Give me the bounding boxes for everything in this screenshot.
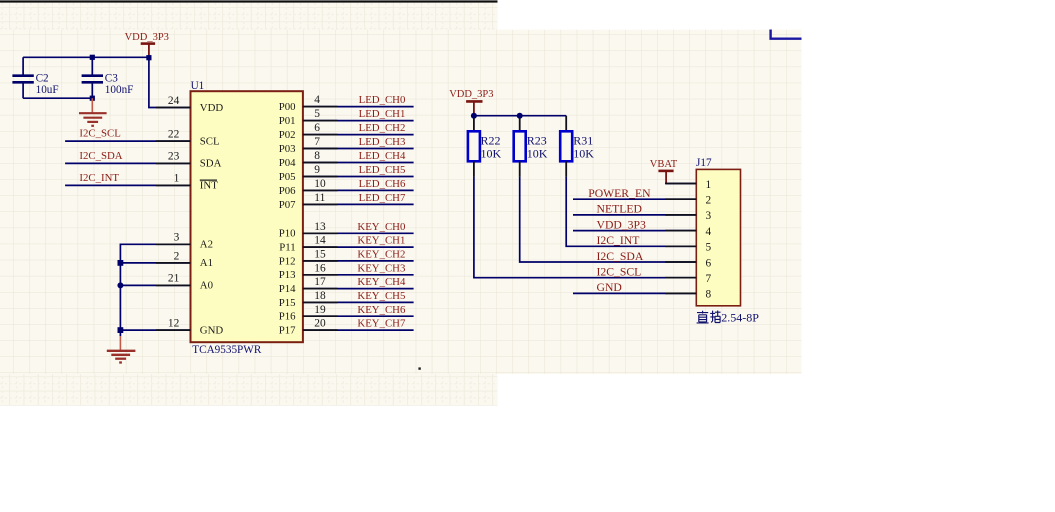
svg-text:10K: 10K: [573, 147, 594, 161]
svg-text:SCL: SCL: [200, 135, 220, 147]
wire top bus C2-C3-VDD: [23, 56, 149, 58]
svg-text:10: 10: [314, 178, 326, 190]
svg-text:P04: P04: [279, 157, 296, 169]
ground (below U1 GND net): [107, 330, 136, 362]
connector J17 body: [696, 169, 740, 305]
svg-text:U1: U1: [191, 80, 205, 92]
svg-text:22: 22: [168, 128, 180, 140]
svg-text:P03: P03: [279, 143, 296, 155]
svg-text:I2C_SDA: I2C_SDA: [597, 250, 644, 263]
svg-text:GND: GND: [200, 325, 224, 337]
svg-text:I2C_SCL: I2C_SCL: [79, 128, 120, 140]
svg-text:LED_CH7: LED_CH7: [359, 192, 406, 204]
svg-text:14: 14: [314, 235, 326, 247]
wire I2C_INT: [65, 184, 190, 186]
wire A2 row with vertical drop: [120, 244, 190, 330]
stray dot: [418, 367, 420, 369]
svg-text:P12: P12: [279, 255, 296, 267]
svg-text:2.54-8P: 2.54-8P: [721, 311, 759, 325]
svg-text:VDD: VDD: [200, 102, 224, 114]
J17 pin stubs (black pin segments): [665, 184, 696, 294]
wire A1 row: [120, 262, 190, 264]
capacitor C3: [82, 57, 134, 98]
U1 left pin stubs (black pin segments): [156, 108, 191, 331]
power VBAT: [650, 159, 678, 184]
svg-text:LED_CH6: LED_CH6: [359, 178, 406, 190]
ground (below C3): [79, 98, 107, 126]
svg-text:I2C_SDA: I2C_SDA: [79, 150, 122, 162]
pin numbers 4-11: [314, 94, 326, 204]
wire GND row: [120, 329, 190, 331]
schematic sheet B (main, coarse grid): [0, 30, 801, 374]
svg-text:10K: 10K: [481, 147, 502, 161]
svg-text:P15: P15: [279, 297, 296, 309]
svg-text:1: 1: [706, 179, 712, 191]
node junction GND: [118, 327, 124, 333]
svg-text:R22: R22: [481, 133, 501, 147]
value label 直插2.54-8P: [697, 311, 760, 325]
svg-text:16: 16: [314, 262, 326, 274]
capacitor C2: [12, 57, 58, 98]
wire NETLED to pin 3: [573, 214, 696, 216]
svg-text:LED_CH4: LED_CH4: [359, 150, 406, 162]
svg-text:C2: C2: [36, 72, 49, 84]
svg-text:19: 19: [314, 304, 326, 316]
wire R31 bottom to I2C_INT (pin 5): [565, 161, 567, 177]
svg-text:23: 23: [168, 151, 180, 163]
svg-text:11: 11: [314, 192, 325, 204]
svg-text:18: 18: [314, 290, 326, 302]
svg-text:100nF: 100nF: [105, 84, 134, 96]
svg-text:24: 24: [168, 95, 180, 107]
node junction C3 bottom: [90, 96, 95, 101]
svg-text:4: 4: [314, 94, 320, 106]
svg-text:KEY_CH0: KEY_CH0: [357, 221, 405, 233]
svg-text:12: 12: [168, 317, 180, 329]
resistor R22: [468, 118, 502, 161]
svg-text:VDD_3P3: VDD_3P3: [449, 89, 493, 100]
wire VBAT to pin 1: [666, 183, 696, 185]
LED channel wires P00-P07: [303, 107, 414, 205]
svg-text:6: 6: [314, 122, 320, 134]
KEY channel wires P10-P17: [303, 233, 414, 330]
svg-text:9: 9: [314, 164, 320, 176]
IC U1 body: [191, 91, 303, 342]
svg-text:17: 17: [314, 276, 326, 288]
svg-text:VDD_3P3: VDD_3P3: [597, 218, 647, 231]
svg-text:KEY_CH5: KEY_CH5: [357, 290, 405, 302]
svg-text:7: 7: [314, 136, 320, 148]
svg-text:P00: P00: [279, 101, 296, 113]
resistor R31: [560, 116, 594, 162]
svg-text:P14: P14: [279, 283, 296, 295]
wire POWER_EN to pin 2: [573, 198, 696, 200]
right side P00-P07 pin names: [279, 101, 296, 211]
wire VDD_3P3 to pin 4: [573, 230, 696, 232]
svg-text:P16: P16: [279, 311, 296, 323]
svg-text:KEY_CH6: KEY_CH6: [357, 304, 406, 316]
wire VDD down to pin 24: [149, 55, 191, 108]
svg-text:20: 20: [314, 318, 326, 330]
wire I2C_SDA: [65, 162, 190, 164]
svg-text:INT: INT: [200, 180, 218, 192]
net labels KEY_CH0-KEY_CH7: [357, 221, 406, 330]
resistor R23: [514, 118, 548, 161]
svg-text:2: 2: [706, 195, 712, 207]
svg-text:3: 3: [706, 210, 712, 222]
wire pullup bus: [474, 115, 566, 117]
svg-text:LED_CH0: LED_CH0: [359, 94, 406, 106]
net labels LED_CH0-LED_CH7: [359, 94, 406, 204]
svg-text:A1: A1: [200, 257, 213, 269]
right side P10-P17 pin names: [279, 228, 296, 337]
svg-text:VBAT: VBAT: [650, 159, 678, 170]
wire GND to pin 8: [573, 292, 696, 294]
svg-text:A2: A2: [200, 239, 213, 251]
node junction A1: [118, 260, 124, 266]
wire R22 bottom to I2C_SCL (pin 7): [473, 161, 475, 177]
node junction A0: [117, 282, 123, 288]
svg-text:SDA: SDA: [200, 158, 222, 170]
node junction C3 top: [90, 55, 95, 60]
wire I2C_SCL: [65, 140, 190, 142]
svg-text:P07: P07: [279, 199, 296, 211]
svg-text:1: 1: [174, 173, 180, 185]
svg-text:13: 13: [314, 221, 326, 233]
wire bottom C2-C3: [23, 97, 92, 99]
svg-text:A0: A0: [200, 280, 213, 292]
svg-text:R31: R31: [573, 133, 593, 147]
svg-text:15: 15: [314, 249, 326, 261]
svg-text:LED_CH5: LED_CH5: [359, 164, 406, 176]
svg-text:10uF: 10uF: [36, 84, 59, 96]
wire A0 row: [120, 284, 190, 286]
sheet A top border line: [0, 0, 498, 2]
svg-text:P01: P01: [279, 115, 296, 127]
svg-text:LED_CH2: LED_CH2: [359, 122, 406, 134]
svg-text:I2C_INT: I2C_INT: [79, 172, 119, 184]
wire R23 bottom to I2C_SDA (pin 6): [519, 161, 521, 177]
svg-text:P06: P06: [279, 185, 296, 197]
svg-text:2: 2: [174, 250, 180, 262]
pin numbers 1-8 of J17: [706, 179, 712, 301]
svg-text:P17: P17: [279, 325, 296, 337]
svg-text:8: 8: [314, 150, 320, 162]
svg-text:P05: P05: [279, 171, 296, 183]
pin numbers 13-20: [314, 221, 326, 330]
schematic sheet A (top-left, fine grid): [0, 3, 498, 406]
svg-text:LED_CH3: LED_CH3: [359, 136, 406, 148]
svg-text:3: 3: [174, 232, 180, 244]
power VDD_3P3 (left): [125, 32, 169, 55]
power VDD_3P3 (right): [449, 89, 493, 116]
svg-text:LED_CH1: LED_CH1: [359, 108, 406, 120]
svg-text:P11: P11: [279, 242, 295, 254]
svg-text:5: 5: [706, 242, 712, 254]
svg-text:TCA9535PWR: TCA9535PWR: [192, 344, 262, 356]
svg-text:KEY_CH3: KEY_CH3: [357, 262, 405, 274]
svg-text:POWER_EN: POWER_EN: [588, 187, 651, 200]
svg-text:KEY_CH7: KEY_CH7: [357, 318, 406, 330]
node junction R22 top: [471, 113, 477, 119]
node junction VDD top wire: [146, 55, 151, 60]
svg-text:6: 6: [706, 257, 712, 269]
svg-text:KEY_CH1: KEY_CH1: [357, 235, 405, 247]
sheet corner marker: [771, 30, 802, 39]
svg-text:P13: P13: [279, 269, 296, 281]
svg-text:J17: J17: [696, 157, 712, 169]
svg-text:21: 21: [168, 273, 180, 285]
svg-text:C3: C3: [105, 72, 118, 84]
svg-text:KEY_CH4: KEY_CH4: [357, 276, 406, 288]
svg-text:VDD_3P3: VDD_3P3: [125, 32, 169, 43]
U1 right pin stubs (black pin segments): [303, 107, 338, 331]
svg-text:8: 8: [706, 289, 712, 301]
svg-text:I2C_INT: I2C_INT: [597, 234, 640, 247]
svg-text:I2C_SCL: I2C_SCL: [597, 266, 642, 279]
svg-text:5: 5: [314, 108, 320, 120]
svg-text:GND: GND: [597, 281, 622, 294]
svg-text:R23: R23: [527, 133, 547, 147]
svg-text:P02: P02: [279, 129, 296, 141]
svg-text:P10: P10: [279, 228, 296, 240]
svg-text:7: 7: [706, 273, 712, 285]
svg-text:NETLED: NETLED: [597, 203, 642, 216]
svg-text:4: 4: [706, 226, 712, 238]
svg-text:KEY_CH2: KEY_CH2: [357, 249, 405, 261]
node junction R23 top: [517, 113, 523, 119]
svg-text:10K: 10K: [527, 147, 548, 161]
